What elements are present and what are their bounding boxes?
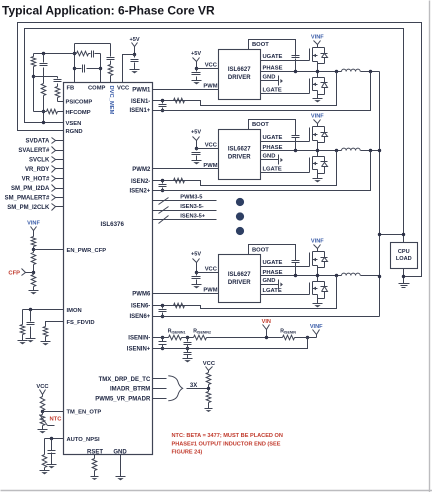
svg-text:PHASE#1 OUTPUT INDUCTOR END (S: PHASE#1 OUTPUT INDUCTOR END (SEE [172, 441, 281, 447]
svg-text:DVC_MEM: DVC_MEM [108, 86, 114, 115]
wire ISEN6- [153, 276, 337, 309]
transistor Q5 high-side NMOS [310, 127, 328, 151]
resistor DVC R2 [110, 61, 112, 65]
node ISEN1+ tap [369, 70, 372, 73]
ground driver 1 [278, 76, 280, 86]
wire PSICOMP branch [34, 76, 58, 78]
svg-text:TMX_DRP_DE_TC: TMX_DRP_DE_TC [99, 377, 151, 383]
wire AUTO_NPSI pin [45, 438, 64, 440]
node ISEN2- riser [335, 149, 338, 152]
wire ISEN1- [153, 72, 337, 106]
svg-text:GND: GND [263, 154, 276, 160]
ground R10 [18, 340, 28, 342]
svg-text:VINF: VINF [27, 221, 40, 227]
wire GND driver 1 [261, 80, 279, 82]
node ISEN2+ tap [369, 149, 372, 152]
node rail phase2 [378, 149, 381, 152]
resistor R13 AUTO_NPSI [44, 439, 46, 455]
node FB row1 [73, 52, 76, 55]
resistor R14 RSET [94, 455, 96, 459]
capacitor boot C1 [292, 55, 300, 57]
wire EN_PWR_CFP pin [34, 249, 64, 251]
capacitor C9 ISENIN [162, 338, 164, 342]
wire FS_FDVID pin [46, 322, 64, 327]
svg-text:DRIVER: DRIVER [228, 155, 251, 161]
svg-text:HFCOMP: HFCOMP [66, 110, 91, 116]
node ISENIN+ mid [186, 347, 189, 350]
page border bottom [1, 490, 432, 492]
svg-text:+5V: +5V [191, 129, 201, 135]
svg-text:COMP: COMP [88, 86, 106, 92]
node VIN [265, 336, 268, 339]
svg-text:RISENIN: RISENIN [280, 328, 296, 334]
inductor L2 [342, 148, 361, 150]
svg-text:3X: 3X [190, 383, 197, 389]
svg-text:DRIVER: DRIVER [228, 75, 251, 81]
wire COMP vertical [100, 54, 102, 83]
svg-text:ISENIN-: ISENIN- [128, 336, 150, 342]
wire BOOT driver 2 [249, 120, 296, 136]
resistor R10 IMON [22, 310, 24, 325]
svg-text:PHASE: PHASE [263, 66, 283, 72]
resistor R7 [31, 237, 36, 247]
wire rail to CPU [380, 234, 404, 236]
inductor L1 [342, 69, 361, 71]
input connector SVALERT# [52, 147, 56, 154]
node PSICOMP branch [32, 75, 35, 78]
ground GND [116, 476, 126, 478]
driver U7 ISL6627 [219, 255, 261, 303]
wire ISEN2+ [153, 151, 371, 191]
resistor RISENIN1 [169, 335, 182, 340]
svg-text:ISEN1-: ISEN1- [131, 99, 150, 105]
capacitor boot C2 [292, 135, 300, 137]
ground R9 [29, 290, 39, 292]
svg-text:ISL6627: ISL6627 [228, 147, 251, 153]
ground C7 [26, 338, 36, 340]
node rail phase6 [378, 275, 381, 278]
wire PSICOMP pin [58, 101, 64, 103]
svg-text:NTC: NTC [50, 417, 63, 423]
svg-text:VINF: VINF [311, 238, 324, 244]
wire VCC driver 1 [197, 68, 219, 70]
diode body Q13 [318, 252, 328, 268]
wire LGATE1 [261, 93, 310, 95]
svg-text:ISEN6+: ISEN6+ [129, 314, 150, 320]
wire ISENIN- to VIN [207, 337, 283, 339]
resistor R8 [33, 250, 35, 253]
svg-text:IMADR_BTRM: IMADR_BTRM [110, 387, 150, 393]
ground C6 [130, 69, 140, 71]
svg-text:FS_FDVID: FS_FDVID [67, 320, 95, 326]
ground phase 1 [313, 98, 323, 100]
resistor HFCOMP R6 [58, 111, 64, 113]
wire BOOT driver 6 [249, 245, 296, 261]
capacitor comp C1 [89, 53, 91, 55]
wire PWM5_VR_PMADR [153, 398, 167, 400]
wire ISEN2- [153, 151, 337, 186]
svg-text:+5V: +5V [191, 252, 201, 258]
svg-text:SM_PMALERT#: SM_PMALERT# [5, 196, 50, 202]
ground 3X [205, 408, 213, 410]
node TM_EN_OTP [41, 410, 44, 413]
svg-text:CPU: CPU [398, 249, 410, 255]
svg-text:CFP: CFP [8, 270, 20, 276]
wire UGATE6 [261, 266, 310, 268]
wire BOOT driver 1 [249, 40, 296, 57]
node boot-phase 2 [294, 149, 297, 152]
svg-text:LGATE: LGATE [263, 167, 282, 173]
svg-text:VR_RDY: VR_RDY [25, 167, 49, 173]
thermistor NTC [42, 412, 44, 415]
svg-text:GND: GND [263, 278, 276, 284]
resistor ISEN1- [174, 98, 185, 103]
input connector SVDATA [52, 138, 56, 144]
svg-text:ISEN6-: ISEN6- [131, 304, 150, 310]
svg-text:PWM1: PWM1 [132, 87, 151, 93]
ground CPU [399, 283, 410, 285]
svg-text:PWM6: PWM6 [132, 292, 151, 298]
svg-text:VCC: VCC [205, 143, 218, 149]
ground VCC driver 6 [192, 284, 202, 286]
diode body Q6 [318, 157, 328, 174]
node VCC driver 6 [195, 271, 198, 274]
brace 3X group [168, 376, 182, 401]
resistor R15 [206, 373, 211, 385]
wire to VINF [295, 337, 317, 339]
wire comp top [75, 43, 111, 45]
capacitor DVC C3 [110, 44, 112, 57]
capacitor VCC driver 1 [196, 69, 198, 72]
node rail-CPU left [378, 233, 381, 236]
ellipsis dots phases 3-5 [236, 198, 244, 206]
svg-text:AUTO_NPSI: AUTO_NPSI [67, 437, 100, 443]
svg-text:VINF: VINF [311, 113, 324, 119]
svg-text:PWM: PWM [203, 288, 217, 294]
node EN_PWR_CFP [32, 248, 35, 251]
resistor RISENIN [283, 335, 295, 340]
svg-text:ISEN2-: ISEN2- [131, 179, 150, 185]
svg-text:SM_PM_I2CLK: SM_PM_I2CLK [7, 205, 50, 211]
wire UGATE1 [261, 60, 310, 62]
svg-text:ISL6627: ISL6627 [228, 67, 251, 73]
resistor R9 [33, 273, 35, 275]
wire LGATE2 [261, 172, 310, 174]
svg-text:SVDATA: SVDATA [26, 139, 50, 145]
capacitor comp C2 [75, 68, 82, 70]
svg-text:RSET: RSET [87, 449, 103, 455]
svg-text:UGATE: UGATE [263, 260, 283, 266]
svg-text:VCC: VCC [36, 384, 49, 390]
svg-text:SM_PM_I2DA: SM_PM_I2DA [11, 186, 50, 192]
capacitor boot C6 [292, 260, 300, 262]
diode body Q4 [318, 78, 328, 95]
resistor comp R1 [34, 53, 77, 55]
input connector SM_PM_I2CLK [52, 204, 56, 211]
capacitor C7 IMON [30, 310, 32, 322]
driver U2 ISL6627 [219, 50, 261, 100]
wire PWM1 [153, 89, 219, 91]
input connector VR_HOT# [52, 176, 56, 182]
node ISEN6- riser [335, 274, 338, 277]
svg-text:ISEN2+: ISEN2+ [129, 188, 150, 194]
transistor Q6 low-side NMOS [310, 151, 328, 179]
ground NTC [38, 429, 48, 431]
wire TMX_DRP_DE_TC [153, 378, 167, 380]
svg-text:LGATE: LGATE [263, 288, 282, 294]
resistor ISEN6- [174, 303, 185, 308]
wire LGATE6 [261, 294, 310, 296]
page border right [429, 1, 431, 492]
inductor L6 [342, 273, 361, 275]
driver U3 ISL6627 [219, 130, 261, 180]
resistor PSICOMP R5 [57, 84, 59, 87]
wire VOUT rail [379, 72, 381, 317]
svg-text:VCC: VCC [203, 361, 216, 367]
svg-text:PWM3-5: PWM3-5 [180, 195, 202, 201]
wire TM_EN_OTP pin [43, 411, 64, 413]
svg-text:IMON: IMON [67, 308, 82, 314]
wire ISENIN+ [153, 338, 308, 349]
input connector SVCLK [52, 157, 56, 163]
svg-text:TM_EN_OTP: TM_EN_OTP [67, 410, 102, 416]
svg-text:SVALERT#: SVALERT# [18, 148, 50, 154]
wire PWM3-5 bus [153, 200, 217, 202]
node VCC junction [133, 53, 136, 56]
node mosfet-phase 2 [316, 149, 319, 152]
ground R13 [40, 470, 50, 472]
svg-text:RISENIN1: RISENIN1 [168, 328, 186, 334]
wire VCC driver 2 [197, 148, 219, 150]
svg-text:FIGURE 24): FIGURE 24) [172, 450, 203, 456]
node ISENIN- cap [161, 336, 164, 339]
svg-text:PWM2: PWM2 [132, 167, 151, 173]
node ISENIN mid [186, 336, 189, 339]
node FB row2 [73, 67, 76, 70]
svg-text:VCC: VCC [205, 63, 218, 69]
wire ISEN1+ [153, 72, 371, 111]
svg-text:RISENIN2: RISENIN2 [193, 328, 211, 334]
svg-text:PHASE: PHASE [263, 270, 283, 276]
wire ISEN3-5+ bus [153, 219, 217, 221]
svg-text:VINF: VINF [311, 34, 324, 40]
svg-text:ISEN1+: ISEN1+ [129, 108, 150, 114]
capacitor ISEN2 [161, 179, 164, 182]
capacitor ISEN6 [161, 304, 164, 307]
svg-text:PSICOMP: PSICOMP [66, 100, 93, 106]
resistor ISEN2- [174, 178, 185, 183]
node AUTO_NPSI [50, 437, 53, 440]
input connector SM_PMALERT# [52, 195, 56, 201]
svg-text:EN_PWR_CFP: EN_PWR_CFP [67, 248, 107, 254]
svg-text:VINF: VINF [310, 324, 323, 330]
diode body Q3 [318, 48, 328, 64]
node VSEN tap [42, 121, 45, 124]
load CPU [391, 243, 418, 269]
wire IMON pin [23, 309, 64, 311]
ground VCC driver 2 [192, 160, 202, 162]
wire GND pin [120, 455, 122, 477]
node comp row1 tap [42, 52, 45, 55]
node mosfet-phase 6 [316, 274, 319, 277]
wire GND driver 2 [261, 159, 279, 161]
svg-text:GND: GND [113, 449, 127, 455]
node VCC driver 1 [195, 67, 198, 70]
svg-text:PWM: PWM [203, 83, 217, 89]
wire PHASE1 [261, 71, 342, 73]
node mosfet-phase 1 [316, 70, 319, 73]
wire ISEN3-5- bus [153, 210, 217, 212]
capacitor comp C4 [43, 54, 45, 63]
svg-text:BOOT: BOOT [252, 42, 269, 48]
svg-text:VIN: VIN [262, 319, 271, 325]
wire PWM2 [153, 168, 219, 170]
svg-text:FB: FB [67, 86, 75, 92]
wire UGATE2 [261, 141, 310, 143]
capacitor C10 ISENIN mid [187, 338, 189, 342]
node VCC driver 2 [195, 147, 198, 150]
svg-text:PWM: PWM [203, 163, 217, 169]
svg-text:BOOT: BOOT [252, 247, 269, 253]
svg-text:GND: GND [263, 75, 276, 81]
resistor R11 FS_FDVID [43, 327, 48, 337]
transistor Q3 high-side NMOS [310, 48, 328, 72]
node CPU ground [402, 275, 405, 278]
wire VCC pin [123, 55, 135, 83]
svg-text:ISEN3-5+: ISEN3-5+ [180, 213, 205, 219]
capacitor ISEN1 [161, 99, 164, 102]
resistor RISENIN2 [194, 335, 207, 340]
ground C8 [47, 464, 57, 466]
wire 3X to resistors [187, 388, 209, 390]
controller U1 ISL6376 [64, 83, 153, 455]
capacitor C6 +5V decoupling [134, 55, 136, 58]
wire CPU ground [403, 269, 405, 284]
svg-text:LOAD: LOAD [396, 256, 412, 262]
node 3X divider [207, 387, 210, 390]
node ISEN1- riser [335, 70, 338, 73]
transistor Q13 high-side NMOS [310, 252, 328, 276]
capacitor VCC driver 6 [196, 273, 198, 276]
resistor comp R4 [43, 68, 45, 84]
node ISENIN sense [306, 336, 309, 339]
resistor R12 [40, 397, 45, 411]
ground phase 6 [313, 303, 323, 305]
node row1 right [99, 67, 102, 70]
svg-text:ISEN3-5-: ISEN3-5- [180, 204, 203, 210]
wire PHASE6 [261, 275, 342, 277]
svg-text:VSEN: VSEN [66, 121, 82, 127]
node boot-phase 1 [294, 70, 297, 73]
wire RGND remote sense loop [18, 23, 422, 277]
svg-text:+5V: +5V [191, 51, 201, 57]
wire PWM6 [153, 293, 219, 295]
svg-text:SVCLK: SVCLK [29, 158, 50, 164]
svg-text:ISENIN+: ISENIN+ [127, 346, 151, 352]
ground C11 [183, 358, 193, 360]
wire PHASE2 [261, 150, 342, 152]
svg-text:VCC: VCC [117, 86, 130, 92]
svg-text:VR_HOT#: VR_HOT# [22, 177, 50, 183]
node HFCOMP tap [42, 110, 45, 113]
svg-text:UGATE: UGATE [263, 135, 283, 141]
transistor Q4 low-side NMOS [310, 72, 328, 99]
svg-text:NTC: BETA = 3477; MUST BE PLAC: NTC: BETA = 3477; MUST BE PLACED ON [172, 433, 283, 439]
svg-text:ISL6376: ISL6376 [101, 221, 125, 228]
svg-text:+5V: +5V [129, 37, 139, 43]
input connector SM_PM_I2DA [52, 185, 56, 192]
capacitor C8 AUTO_NPSI [51, 439, 53, 451]
node boot-phase 6 [294, 274, 297, 277]
wire IMADR_BTRM [153, 388, 167, 390]
node CFP [32, 271, 35, 274]
ground phase 2 [313, 178, 323, 180]
wire ISENIN- [153, 337, 169, 339]
transistor Q14 low-side NMOS [310, 276, 328, 304]
wire VCC driver 6 [197, 272, 219, 274]
wire ISEN6+ [153, 316, 380, 318]
resistor comp R3 [33, 54, 35, 57]
ground driver 2 [278, 155, 280, 165]
svg-text:ISL6627: ISL6627 [228, 272, 251, 278]
node IMON cap [29, 308, 32, 311]
diode body Q14 [318, 282, 328, 299]
svg-text:Typical Application: 6-Phase C: Typical Application: 6-Phase Core VR [2, 3, 215, 17]
svg-text:UGATE: UGATE [263, 54, 283, 60]
diode body Q5 [318, 127, 328, 143]
resistor R16 [208, 389, 210, 392]
node rail-CPU right [402, 233, 405, 236]
wire FB vertical [74, 44, 76, 83]
svg-text:PWM5_VR_PMADR: PWM5_VR_PMADR [95, 397, 151, 403]
wire VSEN remote sense loop [25, 29, 404, 243]
svg-text:LGATE: LGATE [263, 87, 282, 93]
ground VCC driver 1 [192, 80, 202, 82]
ground driver 6 [278, 280, 280, 289]
input connector VR_RDY [52, 166, 56, 173]
capacitor PSICOMP C5 [57, 77, 59, 79]
svg-text:DRIVER: DRIVER [228, 280, 251, 286]
svg-text:VCC: VCC [205, 267, 218, 273]
svg-text:BOOT: BOOT [252, 122, 269, 128]
wire GND driver 6 [261, 284, 279, 286]
svg-text:PHASE: PHASE [263, 145, 283, 151]
ground R11 [41, 341, 51, 343]
ground RSET [91, 476, 99, 478]
capacitor C11 ISENIN gnd [184, 352, 192, 354]
svg-text:RGND: RGND [66, 129, 83, 135]
capacitor VCC driver 2 [196, 149, 198, 151]
